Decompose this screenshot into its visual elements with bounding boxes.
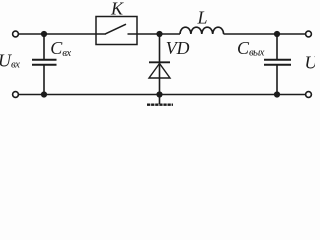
node junction top C_in (41, 31, 47, 37)
terminal bottom-left (13, 92, 19, 98)
node junction top C_out (274, 31, 280, 37)
diode VD triangle (149, 64, 170, 79)
terminal bottom-right (306, 92, 312, 98)
diode VD cathode bar (149, 61, 170, 63)
capacitor C_in wires (43, 34, 45, 59)
capacitor C_out plates (264, 59, 291, 61)
node junction top VD (156, 31, 162, 37)
wire top rail middle (128, 33, 181, 35)
wire top rail right (224, 33, 306, 35)
wire bottom rail (19, 94, 306, 96)
inductor L (180, 27, 224, 34)
wire top rail left (19, 33, 106, 35)
svg-text:VD: VD (166, 38, 190, 58)
node junction bottom C_out (274, 91, 280, 97)
capacitor C_in plates (32, 59, 57, 61)
ground (159, 95, 161, 105)
terminal top-right (306, 31, 312, 37)
diode VD wire (159, 34, 161, 95)
switch K box (96, 17, 137, 45)
node junction bottom C_in (41, 91, 47, 97)
switch K arm (106, 24, 127, 34)
node junction bottom VD (156, 91, 162, 97)
svg-text:U: U (305, 53, 316, 73)
capacitor C_out wires (276, 34, 278, 59)
svg-text:L: L (197, 8, 208, 28)
terminal top-left (13, 31, 19, 37)
svg-text:K: K (110, 0, 124, 19)
